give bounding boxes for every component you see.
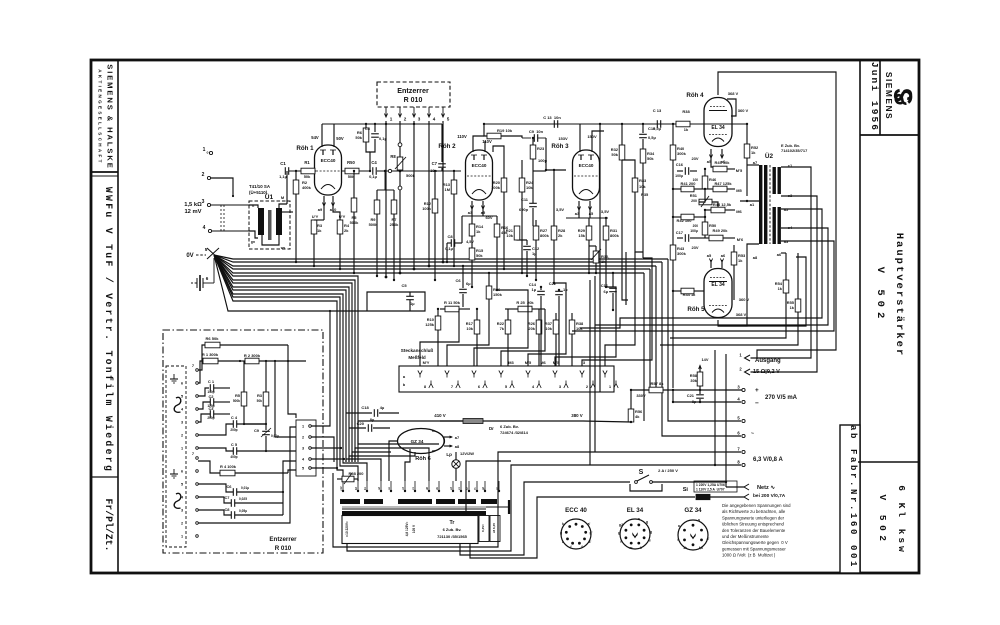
svg-text:Fr/Pl/Zt.: Fr/Pl/Zt. [103,499,114,552]
transformer secondary box [342,516,478,544]
output terminal 3 [742,388,745,391]
svg-text:c12: c12 [340,486,343,491]
right sidebar boundary [859,60,861,573]
svg-text:R1: R1 [304,160,310,165]
svg-text:100k: 100k [422,206,432,211]
svg-text:C 1: C 1 [208,379,215,384]
svg-text:C4: C4 [371,160,377,165]
resistor R3b [265,361,267,392]
svg-text:o: o [207,151,209,155]
svg-text:Ü2: Ü2 [765,151,774,160]
svg-text:C 13: C 13 [653,108,662,113]
socket diagram GZ34 [678,520,708,550]
svg-text:2: 2 [302,436,304,440]
bus rails to terminals [668,259,741,421]
svg-text:R8: R8 [390,154,396,159]
resistor R26 [538,309,540,320]
svg-text:SIEMENS: SIEMENS [884,72,894,120]
tube Röh 6 GZ34 [398,429,445,454]
svg-text:200p: 200p [230,428,237,432]
svg-text:M6: M6 [736,209,742,214]
tie point circle [388,169,391,172]
svg-text:C6: C6 [226,484,232,489]
svg-text:1,5 kΩ: 1,5 kΩ [184,202,202,208]
resistor R28 [553,170,555,226]
potentiometer R30 [593,251,599,263]
netz wires [710,496,744,498]
svg-text:2 A / 250 V: 2 A / 250 V [658,468,678,473]
long vertical rails [599,124,601,392]
svg-text:1µ: 1µ [532,287,537,292]
svg-text:50k: 50k [257,399,263,403]
svg-text:R 4 100k: R 4 100k [220,464,237,469]
svg-text:800k: 800k [540,233,550,238]
rail junction dots [385,123,387,125]
svg-text:3: 3 [418,117,421,122]
resistor R43 [670,245,676,260]
equalizer output wires [311,311,330,426]
svg-text:R23: R23 [537,146,545,151]
cathode arrows a9 a10 [323,196,325,206]
svg-text:400k: 400k [302,185,312,190]
svg-text:C11: C11 [521,197,529,202]
svg-text:R 010: R 010 [404,97,423,104]
connector plug squiggle 1 [174,397,181,412]
svg-text:C9: C9 [254,428,260,433]
resistor R9 [376,190,378,200]
svg-text:R50: R50 [347,160,355,165]
svg-text:C3: C3 [365,126,371,131]
svg-text:1,1µ: 1,1µ [279,174,287,179]
svg-text:1: 1 [181,447,183,451]
svg-text:100µ: 100µ [675,174,683,178]
svg-text:C8: C8 [224,507,230,512]
svg-text:6 Zub. Bv.: 6 Zub. Bv. [500,424,519,429]
svg-text:0,5µ: 0,5µ [648,135,656,140]
resistor R54 [785,253,787,280]
svg-text:EL 34: EL 34 [711,282,724,288]
right header bottom line [860,134,919,136]
anode wires Röh 2 [473,136,484,152]
svg-text:m: m [629,546,632,550]
svg-text:C7: C7 [432,161,438,166]
svg-text:1µ: 1µ [410,301,415,306]
svg-text:V 502: V 502 [874,267,886,324]
svg-text:g: g [560,531,562,535]
connector ground symbol 2 [173,469,175,474]
svg-text:g: g [618,531,620,535]
plug box Messfeld [399,366,614,392]
grid wire Röh 3 [546,138,566,170]
svg-text:R41 200: R41 200 [681,181,697,186]
svg-text:105 V: 105 V [412,524,416,533]
svg-text:14V: 14V [701,357,708,362]
svg-text:c8 6,3V: c8 6,3V [492,523,496,533]
capacitor C14 [540,287,542,290]
svg-text:C 4: C 4 [231,415,238,420]
svg-text:360 V: 360 V [738,108,749,113]
svg-text:C17: C17 [676,230,684,235]
svg-text:Röh 2: Röh 2 [438,143,456,150]
svg-text:+: + [755,387,759,394]
resistor R38b [569,320,575,334]
output terminal 7 [742,450,745,453]
svg-text:Ü1: Ü1 [265,192,274,201]
svg-text:100k: 100k [491,185,501,190]
svg-text:g: g [646,520,648,524]
resistor R13 [453,171,455,180]
svg-text:50k: 50k [647,156,654,161]
cathode arrows a3 a5 Röh 3 [578,201,580,210]
svg-text:R51: R51 [690,193,698,198]
svg-text:R3: R3 [257,393,263,398]
U2 primary bars [759,165,762,244]
svg-text:ECC40: ECC40 [579,163,594,168]
resistor R52 [746,124,748,144]
svg-text:C1: C1 [280,161,286,166]
output terminal 4 [742,400,745,403]
trimmer C9b [265,424,267,430]
capacitor C16b [612,272,614,274]
connector column box [166,366,186,547]
svg-text:gn: gn [251,240,255,244]
plug jack pins [418,371,422,378]
svg-text:150k: 150k [493,292,503,297]
resistor R36 [488,273,490,286]
svg-text:k': k' [589,540,592,544]
svg-text:1k: 1k [683,546,687,550]
svg-text:0,1µ: 0,1µ [445,246,453,251]
svg-text:a': a' [588,522,591,526]
shield dashes [220,205,222,231]
resistor R45 [711,158,713,167]
svg-text:Netz ∿: Netz ∿ [757,485,775,491]
resistor R23 [532,138,534,145]
svg-text:368 V: 368 V [728,91,739,96]
svg-text:gemessen mit Spannungsmesser: gemessen mit Spannungsmesser [722,546,786,551]
svg-text:a: a [638,517,640,521]
svg-text:C9 10n: C9 10n [529,129,544,134]
output terminal 2 [745,369,751,375]
transformer core bar [342,511,486,516]
right header divider [879,60,881,135]
entzerrer drop wire 1 [385,121,387,277]
fuse rating box [694,481,737,492]
svg-text:110V: 110V [457,134,467,139]
svg-text:4µ: 4µ [380,405,385,410]
socket diagram ECC40 [561,519,591,549]
SIEMENS S logo symbol [895,90,911,103]
svg-text:a: a [698,518,700,522]
tube Röh 4 EL34 [704,98,732,147]
output terminal 5 [742,419,745,422]
svg-text:0,025: 0,025 [239,497,247,501]
connector ground symbol 1 [173,374,175,379]
svg-text:M5: M5 [736,188,742,193]
svg-text:724674 /32/814: 724674 /32/814 [500,430,529,435]
svg-text:1000 Ω /Volt (z B Multizet ): 1000 Ω /Volt (z B Multizet ) [722,553,776,558]
svg-text:ws: ws [280,246,286,250]
cathode arrows Röh 4 [710,149,712,158]
svg-text:Tr: Tr [450,520,455,526]
node X junction [207,248,219,259]
svg-text:500k: 500k [406,173,416,178]
capacitor C7 [441,124,443,162]
svg-text:C6: C6 [455,278,461,283]
svg-text:T41/10 SA: T41/10 SA [249,184,271,189]
anode wire Röh 5 [718,257,806,326]
resistor R50 [341,170,345,172]
svg-text:R 010: R 010 [275,545,292,552]
entzerrer drop wire 3 [413,121,415,269]
svg-text:Röh 4: Röh 4 [686,92,704,99]
svg-text:Ausgang: Ausgang [755,358,781,364]
wire terminal4 line [673,401,741,403]
svg-text:C7: C7 [224,495,230,500]
resistor R34 [640,149,646,163]
transformer U1 secondary out wire [286,171,288,204]
svg-text:M'Y: M'Y [423,360,430,365]
svg-text:C16: C16 [676,162,684,167]
svg-text:2: 2 [202,172,205,178]
svg-text:c10 220V≈: c10 220V≈ [345,521,349,537]
resistor R40 [672,124,674,145]
svg-text:Steckanschluß: Steckanschluß [401,348,434,353]
resistor R56 [630,390,632,409]
svg-text:C5: C5 [401,283,407,288]
equalizer right wires [283,461,296,492]
output terminal 1 [745,355,751,361]
transformer core ground [486,506,509,508]
resistor R27 [533,226,539,240]
svg-text:721130 /35/1565: 721130 /35/1565 [437,534,468,539]
svg-text:C18: C18 [361,405,369,410]
svg-text:M'6: M'6 [737,237,744,242]
GZ34 anode taps [444,436,452,438]
grid wire Röh 2 to R20 [493,146,504,178]
entzerrer tap wires with arrows [385,107,387,117]
svg-text:110V: 110V [482,139,492,144]
svg-text:400p: 400p [230,455,237,459]
resistor R22 [507,309,509,320]
svg-text:200: 200 [693,224,699,228]
cathode arrows a3 a5 Röh 2 [471,201,473,209]
resistor R15 [469,248,475,260]
svg-text:Röh 3: Röh 3 [551,143,569,150]
svg-text:54V: 54V [311,135,319,140]
output terminal 6 [742,434,745,437]
svg-text:AKTIENGESELLSCHAFT: AKTIENGESELLSCHAFT [98,69,103,165]
capacitor C12 [526,240,528,245]
equalizer wires mid [287,345,289,361]
svg-text:368 V: 368 V [736,312,747,317]
svg-text:Entzerrer: Entzerrer [269,536,297,543]
svg-text:R5: R5 [235,393,241,398]
svg-text:200p: 200p [207,416,214,420]
svg-text:800k: 800k [610,233,620,238]
svg-text:f,k: f,k [699,546,703,550]
equalizer box Entzerrer R010 top [377,82,450,107]
svg-text:R 1 300k: R 1 300k [202,352,219,357]
svg-text:k: k [562,522,564,526]
svg-text:4: 4 [203,225,206,231]
wire drop C22 [558,324,560,366]
svg-text:50k: 50k [611,152,618,157]
svg-text:2: 2 [181,522,183,526]
svg-text:0,1µ: 0,1µ [379,136,387,141]
wire R32 bottom [622,178,628,300]
svg-text:C 5: C 5 [231,442,238,447]
svg-text:714102/35/717: 714102/35/717 [781,148,808,153]
wire 380V rail [583,421,631,422]
transformer screen line [342,506,486,508]
svg-text:6µ: 6µ [604,289,609,294]
svg-text:6,3V≈: 6,3V≈ [481,524,485,532]
netz terminals [744,484,749,490]
vertical feed 726 [725,354,727,487]
svg-text:und der Meßinstrumente: und der Meßinstrumente [722,534,769,539]
svg-text:125k: 125k [425,322,435,327]
tube U1 ECC40 Röh 1 [315,145,342,195]
svg-text:M'5: M'5 [525,360,532,365]
svg-text:bei 200 V/0,7A: bei 200 V/0,7A [753,493,786,499]
resistor R29 [588,218,590,226]
svg-text:Si: Si [683,487,689,493]
top rail anode supply right [484,123,676,125]
resistor R50b [704,210,706,222]
border frame [91,60,919,573]
transformer U1 primary winding [258,208,264,235]
svg-text:1: 1 [390,117,393,122]
transformer 6V sub boxes [479,516,489,542]
resistor R53 [733,251,735,253]
resistor R24 [521,160,523,178]
wire C8 node [461,216,463,243]
heater wire pair up [466,461,511,516]
svg-text:C 13 10n: C 13 10n [543,115,561,120]
svg-text:0,1µ: 0,1µ [369,174,377,179]
wire R58 drop [357,479,359,481]
transformer U1 wires [249,205,258,208]
resistor R16 [482,209,484,216]
svg-text:50k: 50k [355,135,362,140]
anode wire Röh 4 [718,72,836,358]
svg-text:R47 125k: R47 125k [714,181,732,186]
svg-text:g2: g2 [619,523,623,527]
voltage note text [722,503,791,558]
resistor R46 [704,169,706,176]
svg-text:R 11 50k: R 11 50k [444,300,461,305]
svg-text:6 Kl ksw: 6 Kl ksw [896,485,907,555]
equalizer unit box R010 [163,330,323,553]
svg-text:10k: 10k [466,326,473,331]
resistor R37 [553,320,559,334]
resistor R17 [476,309,478,320]
svg-text:2: 2 [181,434,183,438]
bus drop fanout to transformer [337,462,343,481]
svg-text:1: 1 [181,535,183,539]
wire top rail to R52 [690,123,747,125]
svg-text:Juni 1956: Juni 1956 [869,62,880,132]
svg-text:12 mV: 12 mV [184,209,201,215]
svg-text:0,5µ: 0,5µ [653,126,661,131]
switch bracket [630,484,662,491]
svg-text:k: k [640,546,642,550]
svg-text:R35: R35 [641,192,649,197]
svg-text:3: 3 [302,447,304,451]
svg-text:100µ: 100µ [690,229,698,233]
choke Dr [440,420,463,422]
bus loop rectangle [214,255,425,311]
svg-text:2: 2 [404,117,407,122]
U2 secondary tap wires [751,167,812,358]
resistor R31 [605,218,607,226]
svg-text:300k: 300k [677,151,687,156]
svg-text:−: − [755,400,759,407]
screen wire Röh 4 [727,99,736,116]
svg-text:V 502: V 502 [877,494,888,545]
svg-text:Röh 1: Röh 1 [296,145,314,152]
svg-text:Lp: Lp [446,452,452,457]
svg-text:12V/2W: 12V/2W [460,451,474,456]
socket diagram EL34 [620,519,650,549]
resistor R55 [797,253,799,299]
svg-text:500k: 500k [233,399,240,403]
svg-text:als Richtwerte zu betrachten,: als Richtwerte zu betrachten, alle [722,509,786,514]
svg-text:M'5: M'5 [736,168,743,173]
transformer U1 secondary winding [276,208,282,235]
tube Röh 5 EL34 [704,269,732,318]
resistor R14 [471,209,473,224]
svg-text:5: 5 [302,467,304,471]
U2 core dashes [769,165,771,244]
output terminal 8 [742,463,745,466]
type box divider [858,461,919,463]
GZ34 wires [389,441,398,481]
svg-text:5: 5 [181,483,183,487]
svg-text:GZ 34: GZ 34 [684,507,702,514]
resistor R20 [501,178,507,192]
wire R9 R7 top link [377,189,394,191]
svg-text:a: a [678,524,680,528]
svg-text:S: S [639,469,644,476]
svg-text:3: 3 [181,421,183,425]
svg-text:4,5V: 4,5V [466,240,474,244]
svg-text:1: 1 [203,147,206,153]
bus wires from 0V node [214,255,668,259]
svg-text:50V: 50V [336,136,344,141]
svg-text:153V: 153V [558,136,568,141]
resistor R7 [393,190,395,200]
svg-text:1 110V 2,5 A U707: 1 110V 2,5 A U707 [696,488,725,492]
svg-text:1 220V 1,25A U706: 1 220V 1,25A U706 [696,483,725,487]
vertical feed 715 [714,350,716,465]
switch S [635,481,638,484]
svg-text:300k: 300k [677,251,687,256]
svg-text:6: 6 [181,470,183,474]
svg-text:6: 6 [206,276,209,281]
svg-text:WWFu V TuF / Vertr. Tonfilm Wi: WWFu V TuF / Vertr. Tonfilm Wiederg [103,187,114,473]
svg-text:ECC 40: ECC 40 [565,507,587,514]
svg-text:R58 200: R58 200 [349,471,365,476]
wire R34 bottom [642,185,644,258]
svg-text:Entzerrer: Entzerrer [397,86,429,95]
svg-text:10k: 10k [506,233,513,238]
svg-text:R 2 300k: R 2 300k [244,353,261,358]
svg-text:6: 6 [181,382,183,386]
cathode rail Röh 3 [566,217,608,219]
svg-text:Röh 5: Röh 5 [687,306,705,313]
